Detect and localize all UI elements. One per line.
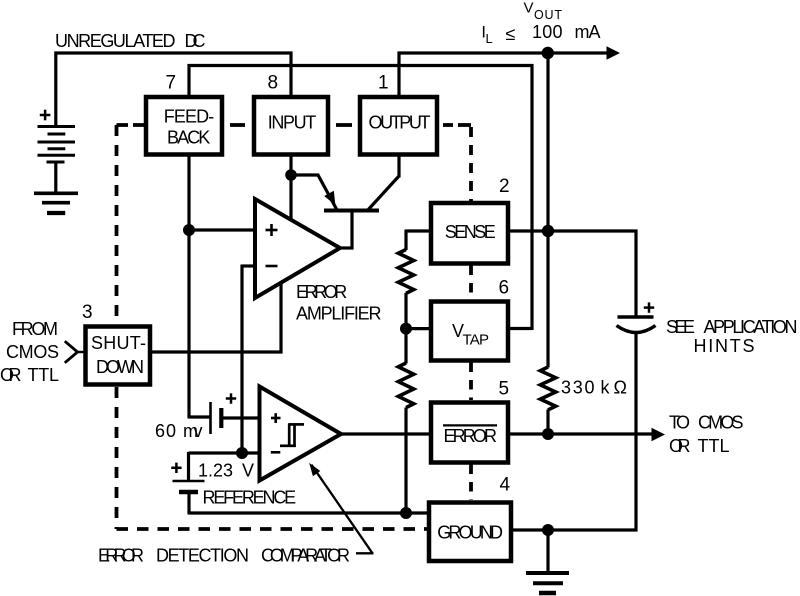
svg-text:ERROR: ERROR	[444, 426, 498, 446]
svg-text:SENSE: SENSE	[445, 222, 496, 242]
wire pin7 FEEDBACK up and over to x=533	[187, 64, 190, 96]
svg-text:3: 3	[82, 302, 93, 323]
box FEEDBACK pin 7	[146, 97, 222, 155]
wire FEEDBACK pin down to 60mv battery	[187, 155, 190, 419]
wire divider middle	[404, 293, 407, 364]
wire ERROR pin right to arrow	[508, 432, 653, 435]
svg-text:HINTS: HINTS	[694, 336, 755, 356]
wire capacitor rail upper	[634, 230, 637, 318]
minus sign comparator input	[271, 451, 281, 454]
svg-text:≤: ≤	[506, 24, 516, 44]
wire dashed IC outline left vertical	[117, 125, 472, 529]
wire dashed pin row y=125	[133, 123, 144, 127]
plus sign comparator input	[271, 417, 281, 420]
svg-text:7: 7	[166, 73, 177, 94]
battery B2 60mv offset	[209, 402, 212, 434]
node reference junction	[236, 447, 248, 459]
wire dashed IC outline bottom	[117, 527, 441, 531]
ground symbol right	[526, 573, 569, 593]
svg-text:GROUND: GROUND	[437, 523, 503, 543]
svg-text:1.23: 1.23	[198, 460, 233, 480]
node error output junction	[542, 428, 554, 440]
wire transistor Q1 emitter from input node	[291, 175, 337, 210]
wire battery to unregulated dc rail	[56, 53, 293, 126]
wire VTAP left stub	[406, 327, 430, 330]
wire battery bottom to ground	[54, 162, 57, 192]
label arrow error detection comparator	[356, 552, 374, 554]
svg-text:mA: mA	[575, 22, 601, 42]
svg-text:UNREGULATED: UNREGULATED	[55, 31, 176, 51]
resistor R1 divider upper	[398, 250, 413, 294]
resistor R2 divider lower	[398, 363, 413, 408]
ground symbol left	[34, 193, 78, 213]
svg-text:100: 100	[532, 22, 563, 42]
svg-text:4: 4	[500, 475, 511, 496]
svg-text:OUT: OUT	[534, 8, 562, 22]
node ground pin junction	[542, 524, 554, 536]
wire 1.23V reference top stub	[187, 452, 190, 480]
svg-text:8: 8	[268, 73, 279, 94]
svg-text:COMPARATOR: COMPARATOR	[261, 546, 350, 566]
wire dashed right column vertical x=471	[469, 127, 473, 201]
svg-text:DC: DC	[185, 31, 206, 51]
svg-text:DETECTION: DETECTION	[156, 546, 249, 566]
arrow TO CMOS output	[652, 428, 666, 442]
svg-text:TTL: TTL	[28, 365, 60, 385]
svg-text:OR: OR	[669, 436, 691, 456]
wire ground row	[511, 528, 638, 531]
node feedback-amp junction	[183, 224, 195, 236]
svg-text:TAP: TAP	[463, 332, 490, 349]
box SENSE pin 2	[431, 203, 508, 264]
svg-text:L: L	[486, 31, 493, 46]
wire comparator + input from 60mv battery	[223, 416, 261, 419]
svg-text:6: 6	[499, 277, 510, 298]
box SHUTDOWN pin 3	[86, 327, 151, 385]
svg-text:INPUT: INPUT	[268, 113, 317, 133]
wire x=533 into VTAP right	[509, 327, 532, 330]
resistor R3 330k	[540, 367, 555, 410]
wire pin8 drop into INPUT	[289, 52, 292, 97]
svg-text:2: 2	[499, 176, 510, 197]
svg-text:TO: TO	[669, 413, 690, 433]
svg-text:330: 330	[561, 378, 595, 398]
svg-text:CMOS: CMOS	[6, 342, 59, 362]
wire capacitor rail lower	[634, 332, 637, 532]
wire comparator output to ERROR pin	[340, 432, 432, 435]
svg-text:60: 60	[155, 421, 176, 441]
svg-text:FROM: FROM	[12, 319, 58, 339]
svg-text:OUTPUT: OUTPUT	[369, 113, 431, 133]
svg-text:1: 1	[378, 73, 389, 94]
capacitor C1 output	[618, 315, 654, 318]
svg-text:APPLICATION: APPLICATION	[704, 317, 798, 337]
transistor Q1 base bar	[324, 209, 379, 213]
wire 1.23V reference bottom to ground pin	[187, 493, 190, 515]
plus sign battery B3	[171, 463, 181, 473]
svg-text:V: V	[524, 0, 534, 17]
node vtap divider junction	[400, 323, 412, 335]
node ground return junction	[400, 507, 412, 519]
svg-text:CMOS: CMOS	[698, 413, 744, 433]
box OUTPUT pin 1	[360, 97, 437, 155]
node sense junction	[542, 225, 554, 237]
svg-text:mv: mv	[183, 421, 203, 441]
plus sign capacitor C1	[644, 302, 654, 312]
svg-text:TTL: TTL	[698, 436, 730, 456]
plus sign battery B1	[40, 110, 51, 121]
battery B3 1.23V reference	[173, 480, 205, 483]
svg-text:ERROR: ERROR	[296, 282, 347, 302]
hysteresis symbol comparator	[280, 424, 304, 446]
op-amp U2 error detection comparator	[260, 387, 342, 481]
wire Vout rail down from junction	[546, 52, 549, 368]
wire transistor Q1 collector to OUTPUT	[367, 176, 400, 212]
minus sign error amp input	[266, 265, 278, 268]
battery B1 unregulated dc plates	[38, 127, 76, 163]
node Vout junction	[542, 47, 554, 59]
wire pin1 OUTPUT up to Vout rail	[397, 52, 400, 97]
wire ground stub below dot	[546, 530, 549, 572]
wire error amp output to Q1 base	[339, 246, 354, 249]
box GROUND pin 4	[429, 503, 511, 562]
box ERROR pin 5	[431, 403, 508, 463]
box VTAP pin 6	[431, 302, 508, 361]
svg-text:5: 5	[499, 378, 510, 399]
wire divider bottom to ground return	[404, 408, 407, 515]
svg-text:kΩ: kΩ	[601, 378, 628, 398]
plus sign battery B2	[226, 393, 236, 403]
svg-text:REFERENCE: REFERENCE	[203, 487, 297, 507]
wire 330k bottom to ERROR row	[546, 410, 549, 435]
wire SENSE right to output rail	[508, 229, 638, 232]
arrow Vout output	[607, 46, 621, 60]
svg-text:V: V	[242, 460, 254, 480]
arrow input chevron FROM CMOS	[65, 341, 78, 363]
overline for ERROR pin label	[443, 424, 497, 426]
wire INPUT pin down to error amp	[289, 155, 292, 220]
box INPUT pin 8	[254, 97, 328, 155]
node input-emitter junction	[285, 169, 297, 181]
svg-text:OR: OR	[0, 365, 22, 385]
plus sign error amp input	[266, 224, 281, 452]
svg-text:DOWN: DOWN	[96, 357, 144, 377]
wire error amp + input	[189, 228, 256, 231]
svg-text:SHUT-: SHUT-	[91, 333, 146, 353]
svg-text:ERROR: ERROR	[98, 546, 144, 566]
wire reference node row to comparator - input	[189, 451, 261, 454]
svg-text:BACK: BACK	[167, 128, 210, 148]
wire shutdown to error amp	[150, 350, 283, 353]
transistor Q1 emitter arrowhead	[324, 191, 335, 206]
svg-text:AMPLIFIER: AMPLIFIER	[296, 304, 382, 324]
wire SENSE left to divider top	[406, 229, 430, 232]
svg-text:FEED-: FEED-	[164, 107, 215, 127]
op-amp U1 error amplifier	[255, 199, 340, 298]
svg-text:SEE: SEE	[666, 317, 695, 337]
wire error amp - input down to reference node	[242, 264, 256, 267]
